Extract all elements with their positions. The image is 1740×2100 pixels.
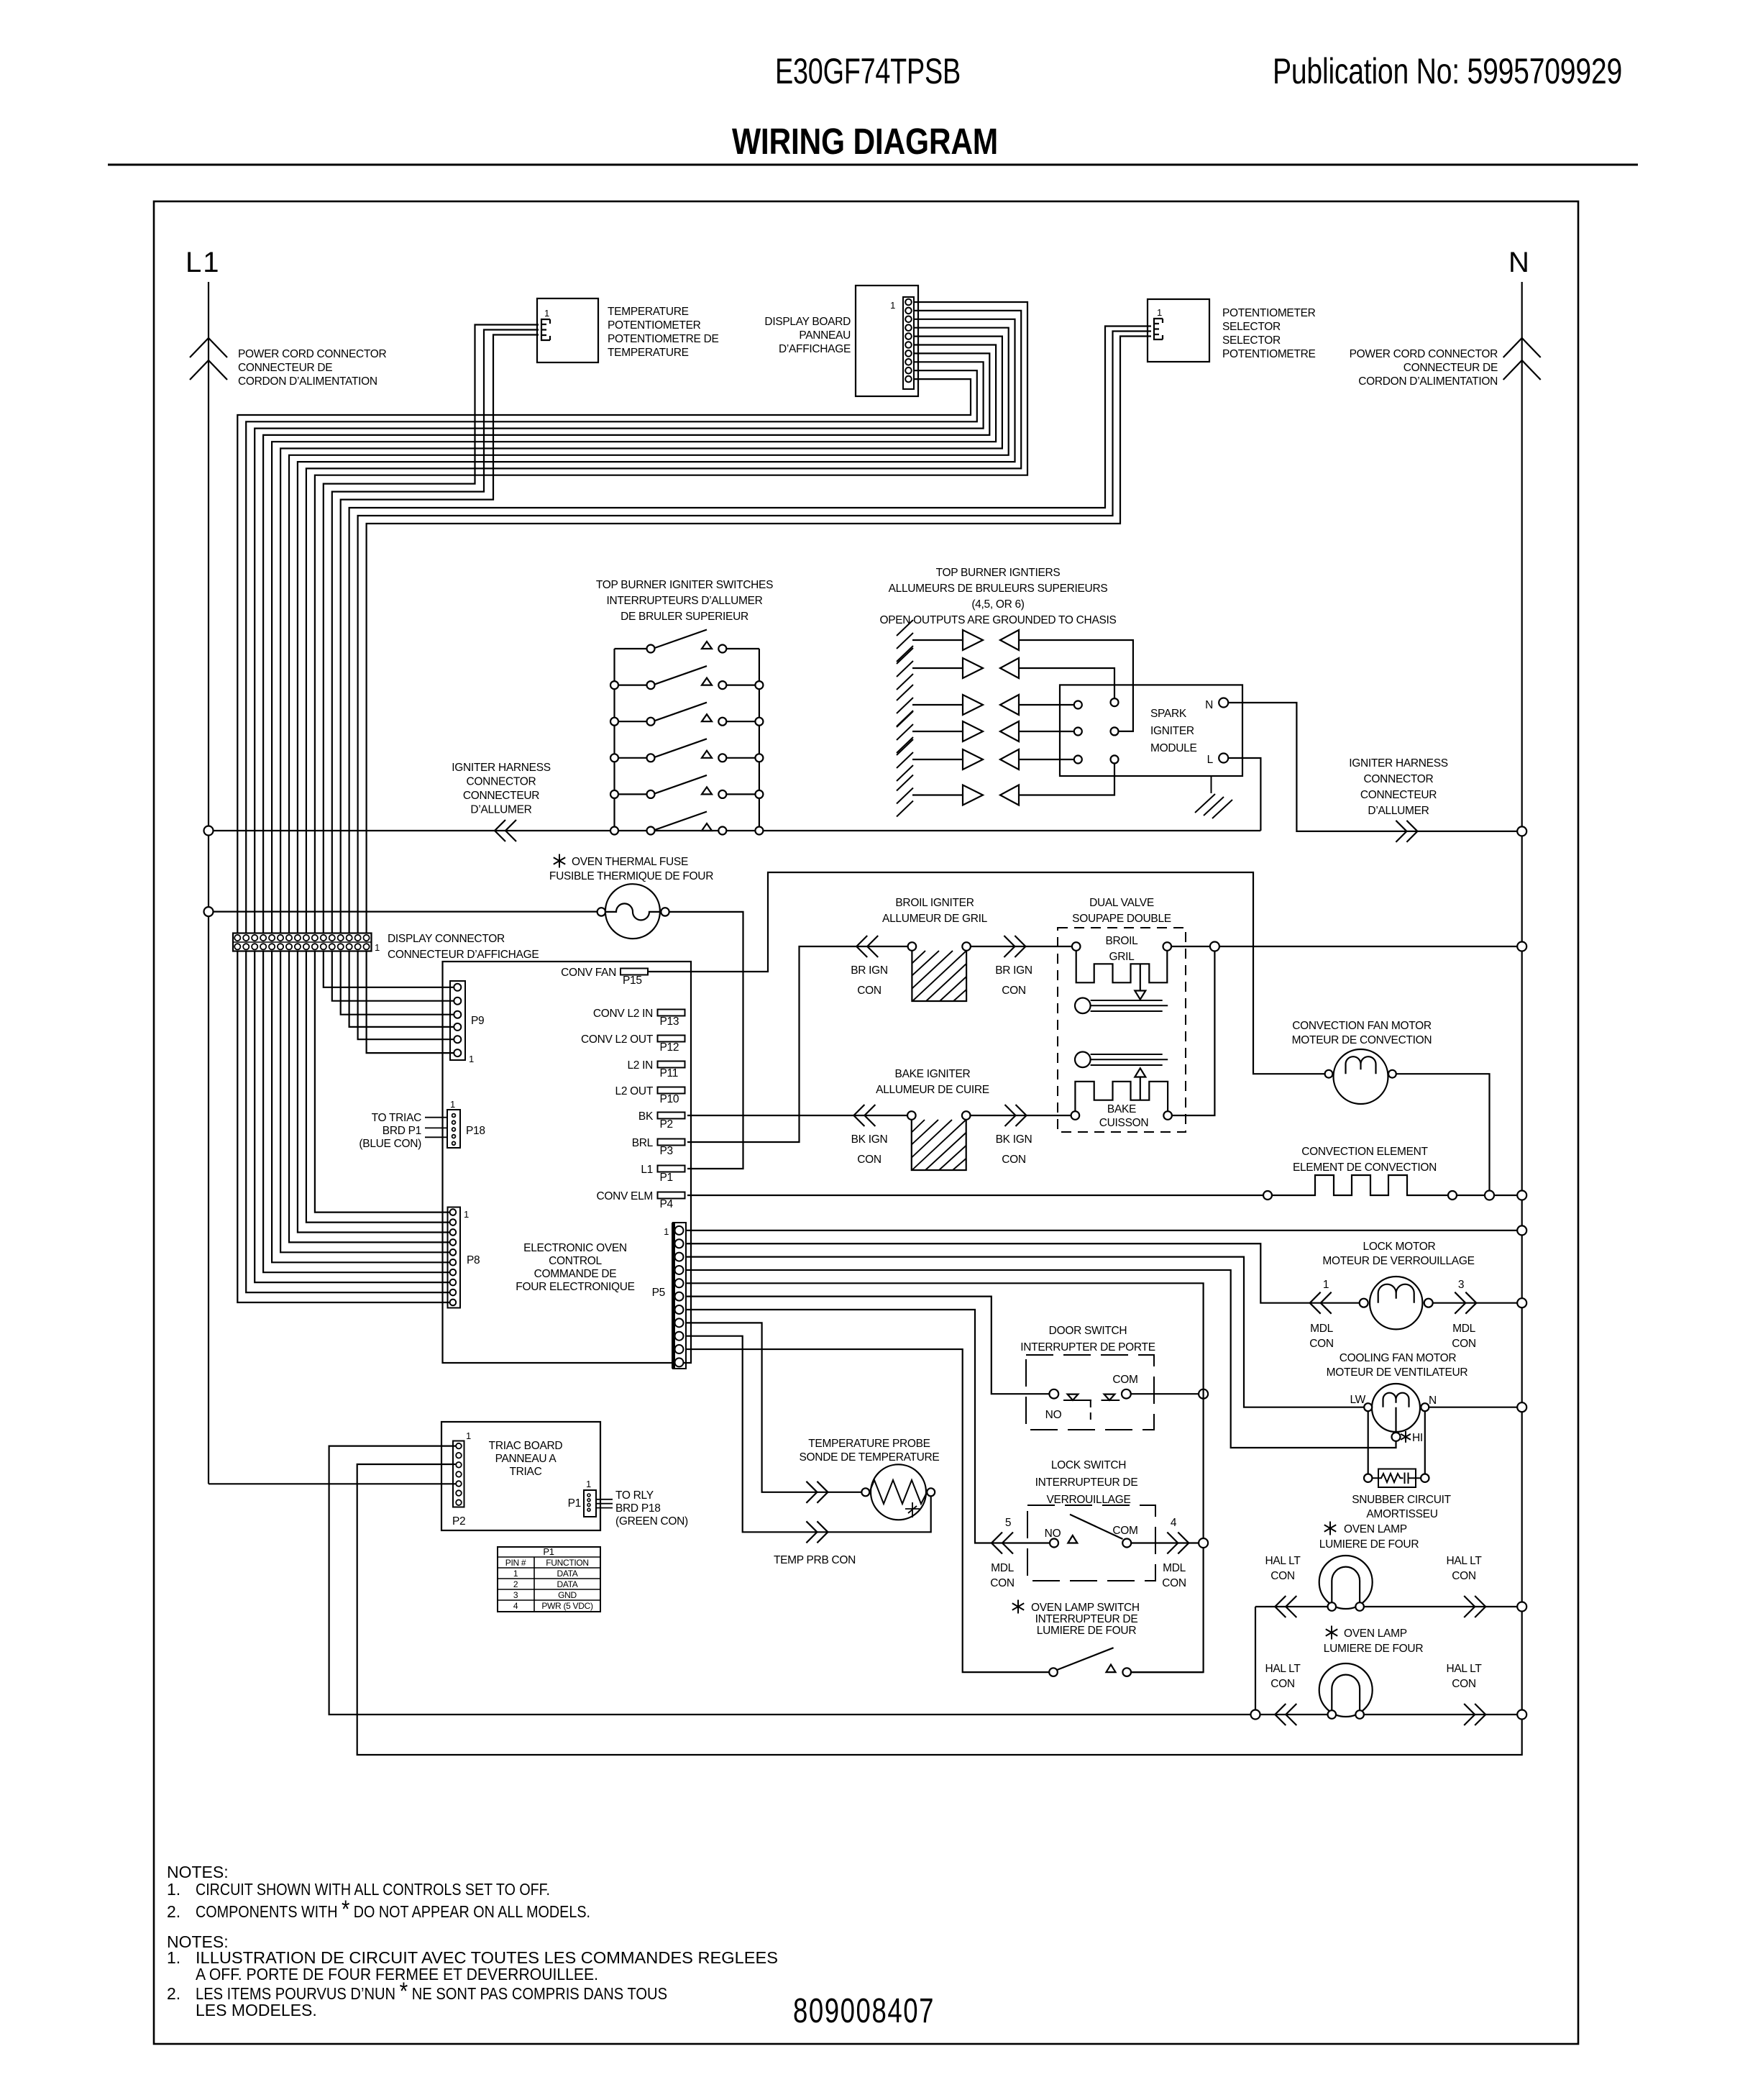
oven lamp switch blade [1057,1648,1114,1670]
display board pin 8 [905,359,912,365]
svg-text:POWER CORD CONNECTOR: POWER CORD CONNECTOR [1350,348,1498,360]
svg-text:TO RLY: TO RLY [615,1489,654,1502]
svg-text:BR IGN: BR IGN [995,964,1032,977]
P2 pin circle 5 [456,1481,462,1487]
wire display connector to P9 pin1 [324,951,454,987]
svg-text:WIRING DIAGRAM: WIRING DIAGRAM [732,121,998,162]
P1 pin dot 3 [587,1504,590,1507]
svg-text:HI: HI [1412,1432,1423,1444]
igniter harness connector chevron right [1396,821,1417,842]
svg-text:INTERRUPTEUR DE: INTERRUPTEUR DE [1035,1613,1138,1625]
svg-text:POTENTIOMETRE: POTENTIOMETRE [1222,348,1316,360]
svg-text:CONNECTEUR: CONNECTEUR [463,790,539,802]
P5 pin circle 9 [675,1332,684,1341]
display connector pin circle bottom 4 [260,944,266,949]
wire display connector to P8 pin7 [263,951,449,1273]
oven lamp 1 pin right [1355,1602,1364,1611]
P5 pin circle 4 [675,1266,684,1274]
svg-text:DISPLAY CONNECTOR: DISPLAY CONNECTOR [388,933,505,945]
lock switch box (dashed) [1027,1505,1155,1581]
P5 pin circle 6 [675,1292,684,1301]
svg-text:1: 1 [375,942,380,953]
EOC connector P3 (BRL) [658,1139,685,1146]
broil valve arrow [1140,964,1141,990]
svg-text:P5: P5 [652,1287,665,1299]
temp probe pin right [927,1488,935,1496]
svg-text:CONVECTION ELEMENT: CONVECTION ELEMENT [1301,1146,1428,1158]
oven lamp 2 chevron right [1464,1704,1485,1725]
oven lamp switch contact triangle [1107,1665,1116,1673]
title underline [108,164,1638,166]
svg-text:1: 1 [469,1054,474,1064]
top burner igniter row 5 spark gap [912,759,963,760]
svg-text:AMORTISSEU: AMORTISSEU [1366,1508,1437,1520]
connector P8 strip [448,1207,461,1308]
svg-text:CON: CON [1002,985,1026,997]
wires to triac P1 [596,1499,613,1508]
svg-text:POTENTIOMETER: POTENTIOMETER [1222,307,1316,319]
display connector pin circle bottom 10 [312,944,318,949]
oven lamp 1 chevron right [1464,1596,1485,1617]
lock switch contact triangle [1068,1535,1077,1543]
svg-text:1: 1 [544,308,549,319]
svg-text:ALLUMEURS DE BRULEURS SUPERIEU: ALLUMEURS DE BRULEURS SUPERIEURS [889,583,1108,595]
top burner igniter row 6 ground [897,775,913,817]
node N igniter harness [1517,826,1526,836]
svg-text:L: L [1207,754,1214,766]
broil igniter pin right [962,942,971,951]
wire display connector pin14 to display board pin8 [255,362,983,933]
temp probe resistor zigzag [869,1480,927,1504]
display connector pin circle top 6 [278,935,283,941]
svg-text:MDL: MDL [991,1562,1015,1574]
wire display connector to selector potentiometer pin1 [349,327,1151,933]
cooling fan pin LW [1364,1403,1372,1411]
svg-text:CONNECTEUR DE: CONNECTEUR DE [1404,362,1498,374]
spark module input pin [1074,701,1082,709]
svg-text:CON: CON [1452,1678,1476,1690]
P8 pin circle 9 [450,1289,457,1296]
bake igniter pin right [962,1111,971,1120]
svg-text:P2: P2 [452,1515,465,1528]
svg-text:INTERRUPTEURS D’ALLUMER: INTERRUPTEURS D’ALLUMER [606,595,762,607]
EOC connector P13 (CONV L2 IN) [658,1010,685,1016]
cooling fan motor winding [1383,1393,1409,1407]
display connector pin circle top 1 [234,935,240,941]
label oven thermal fuse [554,854,565,868]
display board pin 5 [905,333,912,339]
connector P1 strip (triac) [584,1490,596,1517]
top burner igniter row 4 ground [897,711,913,753]
P5 pin circle 1 [675,1226,684,1235]
svg-text:CORDON D’ALIMENTATION: CORDON D’ALIMENTATION [1358,375,1498,388]
display connector pin circle bottom 16 [363,944,369,949]
label HI with star [1401,1431,1411,1443]
label oven lamp 1 [1324,1522,1336,1535]
svg-text:LES MODELES.: LES MODELES. [196,2001,317,2019]
top burner igniter row 3 spark gap [912,704,963,706]
P5 pin circle 10 [675,1345,684,1353]
connector P9 strip [450,981,465,1060]
node door switch [1199,1389,1208,1399]
snubber pin left [1364,1474,1372,1482]
wire P5 pin5 node chain [686,1283,1204,1672]
wire EOC P3 BRL to broil igniter [687,946,908,1142]
svg-text:HAL LT: HAL LT [1265,1555,1301,1567]
P5 pin circle 11 [675,1358,684,1366]
svg-text:CONVECTION FAN MOTOR: CONVECTION FAN MOTOR [1292,1020,1432,1032]
display connector pin circle bottom 7 [286,944,292,949]
switch array left bus [613,649,615,831]
node N element line [1517,1191,1526,1200]
node L1 thermal fuse [204,907,214,916]
convection fan motor pin right [1388,1070,1396,1078]
wire P5 pin1 to N rail [686,1230,1517,1231]
svg-text:CON: CON [1002,1154,1026,1166]
bake igniter pin left [907,1111,916,1120]
display connector pin circle top 8 [295,935,301,941]
wire display connector to P8 pin10 [237,951,449,1303]
svg-text:CONV FAN: CONV FAN [561,967,616,979]
svg-text:1.: 1. [167,1880,180,1899]
EOC connector P12 (CONV L2 OUT) [658,1036,685,1042]
svg-text:L2 IN: L2 IN [627,1059,653,1072]
svg-text:MDL: MDL [1452,1323,1476,1335]
wire L1 rail vertical [208,282,209,1484]
wire P5 pin6 to door switch NO [686,1297,1049,1394]
border frame [154,201,1578,2044]
svg-text:D’ALLUMER: D’ALLUMER [1368,805,1429,817]
temperature potentiometer box [537,298,598,362]
svg-text:ALLUMEUR DE GRIL: ALLUMEUR DE GRIL [882,913,988,925]
svg-text:LUMIERE DE FOUR: LUMIERE DE FOUR [1319,1538,1419,1551]
dual valve box (dashed) [1058,928,1186,1132]
wire display connector to P8 pin1 [315,951,450,1213]
broil igniter connector chevron right [1004,936,1025,957]
svg-text:BR IGN: BR IGN [851,964,888,977]
svg-text:HAL LT: HAL LT [1446,1555,1482,1567]
svg-text:2.: 2. [167,1984,180,2003]
svg-text:3: 3 [1458,1279,1464,1291]
display connector pin circle bottom 2 [243,944,249,949]
svg-text:(GREEN CON): (GREEN CON) [615,1515,688,1528]
svg-text:P10: P10 [660,1093,679,1105]
svg-text:COM: COM [1112,1525,1137,1537]
door switch contact 1 [1068,1394,1079,1400]
svg-text:NO: NO [1045,1528,1061,1540]
display board pin 10 [905,376,912,383]
svg-text:SNUBBER CIRCUIT: SNUBBER CIRCUIT [1352,1494,1451,1506]
bake valve arrow [1135,1068,1145,1077]
display connector pin circle top 4 [260,935,266,941]
wire display connector to P8 pin4 [289,951,450,1243]
lock motor circle [1370,1277,1422,1329]
svg-text:PWR (5 VDC): PWR (5 VDC) [541,1601,593,1611]
svg-text:COM: COM [1112,1374,1137,1386]
display board pin 4 [905,324,912,331]
wire display connector to P9 pin3 [341,951,454,1015]
wire display connector to temperature potentiometer pin3 [341,335,539,933]
wire display connector to P8 pin3 [298,951,450,1233]
svg-text:D’AFFICHAGE: D’AFFICHAGE [779,343,851,355]
power cord connector L1 chevrons [190,338,227,357]
wire dual valve bake join [1172,951,1215,1116]
svg-text:SPARK: SPARK [1150,708,1187,720]
svg-text:LOCK SWITCH: LOCK SWITCH [1051,1459,1126,1471]
wire EOC P15 conv fan feed [648,872,1325,1074]
svg-text:IGNITER: IGNITER [1150,725,1194,737]
node L1 igniter harness [204,826,214,836]
svg-text:GRIL: GRIL [1109,951,1135,963]
top burner switch row 5 [615,793,759,795]
oven lamp 1 bulb [1319,1556,1373,1609]
svg-text:LUMIERE DE FOUR: LUMIERE DE FOUR [1037,1625,1137,1637]
svg-text:CON: CON [1270,1678,1295,1690]
svg-text:NOTES:: NOTES: [167,1863,229,1881]
display connector pin circle top 3 [252,935,257,941]
svg-text:BRL: BRL [632,1137,654,1149]
svg-text:IGNITER HARNESS: IGNITER HARNESS [452,762,551,774]
wire display connector pin12 to display board pin6 [272,345,996,933]
oven lamp 1 chevron left [1275,1596,1296,1617]
svg-text:P12: P12 [660,1041,679,1054]
wire triac P2 pin3 to bottom rail [357,1464,1522,1755]
display board pin 6 [905,342,912,348]
P1 pin dot 2 [587,1499,590,1502]
wire display connector pin9 to display board pin3 [298,319,1015,933]
connector P18 strip [447,1110,460,1148]
svg-text:SELECTOR: SELECTOR [1222,321,1281,333]
svg-text:POTENTIOMETER: POTENTIOMETER [608,319,701,332]
svg-text:L1: L1 [186,247,221,278]
switch array right bus [759,649,760,831]
P1 pin dot 4 [587,1508,590,1511]
top burner igniter row 4 spark gap [912,731,963,732]
wire P5 pin9 to temp probe return [686,1336,931,1533]
svg-text:OVEN LAMP: OVEN LAMP [1344,1523,1407,1535]
svg-text:CONNECTOR: CONNECTOR [467,776,536,788]
lock switch COM pin [1122,1539,1131,1548]
display connector pin circle top 14 [347,935,352,941]
svg-text:809008407: 809008407 [793,1992,935,2030]
wire element to N rail [1457,1195,1517,1196]
svg-text:TOP BURNER IGNITER SWITCHES: TOP BURNER IGNITER SWITCHES [596,579,773,591]
svg-text:OPEN OUTPUTS ARE GROUNDED TO C: OPEN OUTPUTS ARE GROUNDED TO CHASIS [879,614,1116,626]
svg-text:N: N [1508,247,1529,278]
top burner switch row 3 [615,721,759,722]
display board pin 9 [905,367,912,374]
svg-text:BK IGN: BK IGN [851,1133,888,1146]
svg-text:L2 OUT: L2 OUT [615,1085,654,1097]
svg-text:1: 1 [466,1430,471,1441]
svg-text:MOTEUR DE VERROUILLAGE: MOTEUR DE VERROUILLAGE [1322,1255,1474,1267]
spark module inner pin [1111,698,1119,706]
node oven lamp 2 feed [1251,1710,1260,1720]
EOC connector P4 (CONV ELM) [658,1192,685,1199]
display connector pin circle bottom 11 [321,944,326,949]
wire P5 pin4 to cooling fan HI [686,1270,1396,1448]
svg-text:CON: CON [857,1154,882,1166]
svg-text:BAKE IGNITER: BAKE IGNITER [895,1068,971,1080]
P18 pin dot 5 [452,1141,456,1145]
wire P5 pin8 to temp probe [686,1323,861,1492]
display board pin 1 [905,299,912,306]
svg-text:1: 1 [1157,307,1162,318]
display board pin 2 [905,308,912,314]
wire display connector to P8 pin6 [272,951,449,1263]
oven lamp 1 pin left [1328,1602,1337,1611]
svg-text:OVEN LAMP SWITCH: OVEN LAMP SWITCH [1031,1602,1140,1614]
spark module inner pin [1111,727,1119,735]
convection element heating coil [1272,1175,1448,1195]
wire display connector pin13 to display board pin7 [263,353,989,933]
svg-text:CON: CON [1270,1570,1295,1582]
P9 pin circle 5 [454,1036,461,1043]
display connector pin circle top 16 [363,935,369,941]
selector pot connector pins [1154,319,1163,339]
display connector pin circle top 2 [243,935,249,941]
EOC connector P15 (CONV FAN) [621,969,648,975]
wire dual valve broil to N rail [1171,946,1517,947]
door switch NO pin [1049,1389,1058,1399]
lock motor pin right [1424,1299,1433,1307]
svg-text:TO TRIAC: TO TRIAC [372,1112,421,1124]
wire lock motor to N rail [1433,1302,1518,1304]
svg-text:P13: P13 [660,1015,679,1028]
ground symbol spark module [1195,794,1232,818]
wire display connector pin11 to display board pin5 [280,337,1002,933]
svg-text:P18: P18 [466,1125,485,1137]
temp probe chevron top [806,1482,828,1503]
temperature potentiometer connector pins [541,319,550,340]
broil igniter pin left [908,942,917,951]
broil igniter element (hatched) [912,951,966,1001]
svg-text:OVEN LAMP: OVEN LAMP [1344,1627,1407,1640]
P5 pin circle 8 [675,1318,684,1327]
wire display connector pin7 to display board pin1 [315,302,1027,933]
svg-text:L1: L1 [641,1164,653,1176]
svg-text:DATA: DATA [557,1579,577,1589]
svg-text:CONV L2 OUT: CONV L2 OUT [581,1033,654,1046]
oven lamp 2 pin left [1328,1710,1337,1719]
svg-text:P1: P1 [568,1497,581,1510]
svg-text:CORDON D’ALIMENTATION: CORDON D’ALIMENTATION [238,375,377,388]
triac board box [441,1422,600,1530]
svg-text:P8: P8 [467,1254,480,1266]
bake igniter connector chevron left [853,1105,875,1126]
door switch contact 2 [1104,1394,1115,1400]
display connector pin circle top 13 [338,935,344,941]
P5 pin circle 5 [675,1279,684,1287]
svg-text:DOOR SWITCH: DOOR SWITCH [1049,1325,1127,1337]
convection fan motor pin left [1325,1070,1333,1078]
display connector pin circle bottom 5 [269,944,275,949]
P2 pin circle 3 [456,1462,462,1468]
svg-text:BAKE: BAKE [1107,1103,1136,1115]
svg-text:CON: CON [1452,1570,1476,1582]
svg-text:CONNECTEUR: CONNECTEUR [1360,789,1437,801]
svg-text:MODULE: MODULE [1150,742,1197,754]
connector P2 strip [453,1441,464,1507]
display connector pin circle top 15 [355,935,361,941]
P2 pin circle 4 [456,1471,462,1477]
P2 pin circle 7 [456,1499,462,1505]
spark module N pin [1219,698,1228,708]
lock switch NO pin [1050,1539,1058,1548]
top burner igniter row 2 spark gap [912,667,963,669]
svg-text:1: 1 [450,1099,455,1110]
bake igniter connector chevron right [1005,1105,1027,1126]
wire oven lamp switch to node chain [1131,1671,1204,1673]
wire display connector pin10 to display board pin4 [289,328,1009,933]
svg-text:CONNECTEUR D’AFFICHAGE: CONNECTEUR D’AFFICHAGE [388,949,539,961]
label oven lamp switch [1012,1600,1024,1614]
wire display connector to selector potentiometer pin2 [358,332,1151,933]
svg-text:TEMPERATURE PROBE: TEMPERATURE PROBE [808,1438,930,1450]
wire L1 to thermal fuse [214,910,597,912]
broil igniter connector chevron left [856,936,878,957]
display connector pin circle top 12 [329,935,335,941]
top burner igniter row 2 ground [897,648,913,690]
top burner switch row 2 [615,684,759,685]
wires to P18 [425,1118,447,1138]
svg-text:P11: P11 [660,1067,679,1079]
P8 pin circle 4 [450,1239,457,1246]
temp probe thermistor mark [905,1502,920,1517]
svg-text:DE BRULER SUPERIEUR: DE BRULER SUPERIEUR [621,611,748,623]
spark igniter module box [1060,685,1242,776]
display connector pin circle bottom 12 [329,944,335,949]
svg-text:1.: 1. [167,1948,180,1967]
svg-text:A OFF. PORTE DE FOUR FERMEE: A OFF. PORTE DE FOUR FERMEE ET DEVERROUI… [196,1965,598,1983]
bake igniter element (hatched) [912,1120,966,1170]
bake solenoid coil [1075,1082,1168,1111]
wire LW to snubber [1368,1411,1369,1474]
wire P5 pin3 to cooling fan LW [686,1257,1364,1407]
P9 pin circle 3 [454,1011,461,1018]
display connector pin circle bottom 13 [338,944,344,949]
lock switch blade [1070,1515,1123,1539]
svg-text:N: N [1429,1394,1437,1407]
svg-text:COMMANDE DE: COMMANDE DE [534,1268,617,1280]
top burner switch row 4 [615,757,759,759]
node N cooling fan [1517,1402,1526,1412]
svg-text:LOCK MOTOR: LOCK MOTOR [1363,1241,1436,1253]
snubber circuit box [1378,1469,1416,1488]
P8 pin circle 3 [450,1229,457,1236]
node lock switch [1199,1538,1208,1548]
wire thermal fuse to EOC P1 [669,912,743,1169]
temp probe chevron bottom [806,1521,828,1543]
dual valve bake pin left [1071,1111,1080,1120]
lock motor pin left [1360,1299,1368,1307]
convection fan motor circle [1334,1049,1388,1104]
wire display connector to P8 pin5 [280,951,449,1253]
lock switch chevron left [992,1533,1013,1554]
P18 pin dot 1 [452,1114,456,1118]
oven lamp 2 pin right [1355,1710,1364,1719]
wire P5 pin10 to oven lamp switch [686,1349,1049,1672]
svg-text:CON: CON [990,1577,1015,1589]
top burner igniter row 5 ground [897,739,913,781]
svg-text:P9: P9 [471,1015,484,1027]
P1 pin function table [498,1547,600,1612]
wire display connector pin8 to display board pin2 [306,311,1021,933]
svg-text:NO: NO [1045,1409,1062,1421]
P8 pin circle 5 [450,1249,457,1256]
svg-text:N: N [1205,699,1213,711]
wire spark module N to harness [1228,703,1517,831]
